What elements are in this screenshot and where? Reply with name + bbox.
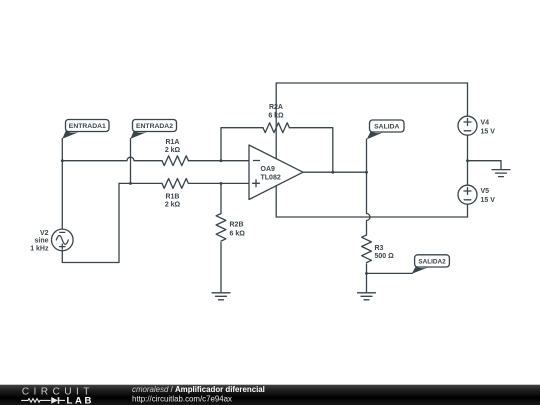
node dot ENTRADA1/wire1 junction (61, 159, 64, 162)
node dot output/SALIDA junction (365, 171, 368, 174)
wire R3 junction to SALIDA2 (367, 272, 413, 274)
node dot R1B/R2B junction (220, 182, 223, 185)
resistor R2A feedback (221, 104, 333, 172)
node dot supply midpoint (466, 159, 469, 162)
wire R2B to ground (220, 243, 222, 293)
svg-text:R1B: R1B (165, 194, 179, 201)
svg-text:http://circuitlab.com/c7e94ax: http://circuitlab.com/c7e94ax (132, 394, 232, 403)
node dot feedback junction (331, 171, 334, 174)
svg-text:2 kΩ: 2 kΩ (165, 201, 181, 208)
wire V4 to V5 (467, 135, 469, 185)
flag SALIDA2 (412, 255, 450, 274)
voltage source V5 (458, 185, 495, 204)
wire R1B to opamp plus input (188, 182, 249, 184)
svg-text:15 V: 15 V (481, 197, 496, 204)
svg-text:sine: sine (34, 238, 48, 245)
op-amp OA9 (249, 145, 303, 200)
wire V5 to bottom rail (467, 204, 469, 217)
wire R1A to opamp minus input (188, 160, 249, 162)
svg-text:V5: V5 (481, 188, 490, 195)
svg-text:SALIDA2: SALIDA2 (418, 259, 446, 266)
wire opamp V+ pin (275, 83, 277, 159)
svg-text:R2A: R2A (269, 104, 283, 111)
node dot R3/SALIDA2 junction (365, 272, 368, 275)
footer bar (0, 385, 540, 405)
svg-text:SALIDA: SALIDA (374, 124, 399, 131)
svg-text:R3: R3 (375, 245, 384, 252)
ground supplies (492, 170, 510, 177)
wire net2 (plus input) left part (119, 182, 162, 184)
wire midpoint to ground (468, 161, 502, 170)
resistor R1A (162, 139, 188, 166)
wire ENTRADA2 stem (130, 139, 132, 184)
ground below R3 (358, 293, 376, 300)
resistor R3 (362, 235, 395, 263)
svg-text:500 Ω: 500 Ω (375, 253, 395, 260)
svg-text:V4: V4 (481, 120, 490, 127)
svg-text:15 V: 15 V (481, 128, 496, 135)
svg-text:1 kHz: 1 kHz (30, 246, 49, 253)
svg-text:LAB: LAB (67, 395, 95, 405)
wire net1 (minus input) with hop over ENTRADA2 stem (62, 157, 162, 160)
flag ENTRADA1 (62, 120, 109, 139)
wire R3 to ground (366, 264, 368, 293)
svg-text:6 kΩ: 6 kΩ (268, 113, 284, 120)
svg-text:ENTRADA1: ENTRADA1 (69, 123, 106, 130)
svg-text:6 kΩ: 6 kΩ (230, 231, 246, 238)
wire top rail to V4 (467, 83, 469, 116)
wire ENTRADA1 stem to V2 (61, 139, 63, 230)
wire top rail (276, 82, 467, 84)
voltage source V4 (458, 116, 495, 135)
svg-text:R1A: R1A (165, 139, 179, 146)
resistor R1B (162, 178, 188, 208)
wire V2 bottom loop to wire2 (62, 183, 119, 262)
wire opamp output (303, 171, 367, 173)
wire bottom rail (276, 216, 467, 218)
CircuitLab logo schematic line (resistor + diode) (21, 397, 65, 404)
svg-text:ENTRADA2: ENTRADA2 (136, 123, 173, 130)
node dot ENTRADA2/wire2 junction (129, 182, 132, 185)
voltage source V2 (30, 229, 73, 252)
svg-text:cmoralesd / Amplificador difer: cmoralesd / Amplificador diferencial (132, 385, 265, 394)
svg-text:OA9: OA9 (261, 166, 276, 173)
svg-text:2 kΩ: 2 kΩ (165, 147, 181, 154)
wire opamp V- pin (275, 186, 277, 217)
flag SALIDA (367, 120, 404, 139)
node dot R1A/R2A junction (220, 159, 223, 162)
wire SALIDA stem with hop over bottom rail (366, 139, 368, 172)
resistor R2B (216, 183, 245, 241)
ground below R2B (212, 293, 230, 300)
flag ENTRADA2 (131, 120, 177, 139)
svg-text:TL082: TL082 (261, 174, 281, 181)
svg-text:R2B: R2B (230, 221, 244, 228)
svg-text:V2: V2 (40, 230, 49, 237)
